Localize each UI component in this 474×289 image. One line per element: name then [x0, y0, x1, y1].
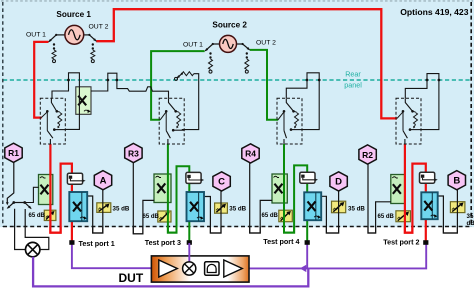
test port coupler CPLA (port 1) [69, 192, 87, 221]
jumper SW2 top rear panel loop [405, 74, 439, 130]
open contact circle [175, 77, 178, 80]
wire source1 OUT1 to switch box SW1 [34, 42, 48, 118]
svg-text:Source 2: Source 2 [212, 21, 247, 30]
reference stem R1 [7, 162, 14, 204]
measurement receiver C [213, 172, 230, 191]
reference coupler CPL3 (port 3) [154, 174, 171, 203]
test port coupler CPLB (port 2) [421, 192, 437, 219]
measurement receiver D [330, 172, 347, 191]
wire source2 to right pivot [236, 43, 242, 45]
reference path R2 [368, 164, 391, 234]
receiver attenuator 35 dB (port 1) [97, 203, 111, 213]
test port 4 connector [305, 240, 310, 245]
svg-text:Test port 3: Test port 3 [145, 238, 181, 247]
svg-text:OUT 1: OUT 1 [26, 32, 46, 39]
coupled arm port3 to 35dB and receiver C [204, 191, 221, 233]
front jumper receiver B [443, 227, 457, 234]
test port 1 connector [69, 240, 74, 245]
wire pulse modulator to SW3 top [91, 73, 169, 98]
reference coupler CPL2 (port 2) [391, 175, 406, 204]
jumper SW1 top to pulse modulator [52, 73, 79, 130]
wire source2 to left pivot [213, 43, 220, 45]
purple cable mixer IF output [33, 257, 308, 287]
rear panel connector junction dots [67, 79, 440, 82]
source1 switch lever OUT2 [88, 34, 97, 42]
R1 switch lever right [24, 201, 32, 209]
receiver attenuator 35 dB (port 2) [450, 202, 465, 213]
wire source1 OUT2 over top to switch box SW2 [96, 9, 397, 118]
wire SW1 through 65dB to front jumper and test port 1 [50, 144, 72, 241]
source2 termination left [209, 52, 213, 73]
DUT filter [205, 262, 219, 276]
svg-text:OUT 2: OUT 2 [256, 40, 276, 47]
purple cable test port3 to DUT mixer [188, 243, 190, 264]
front jumper source out port3 [168, 227, 177, 233]
reference path R3 [133, 162, 154, 234]
measurement receiver A [94, 171, 111, 190]
junction chevron on DUT output bus [300, 265, 307, 272]
source1 termination left [52, 43, 56, 62]
svg-text:B: B [453, 176, 460, 187]
svg-text:DUT: DUT [119, 271, 144, 285]
svg-text:R3: R3 [128, 148, 139, 158]
purple cable DUT output bus [250, 243, 427, 269]
step attenuator 65 dB (port 3) [158, 211, 171, 222]
front jumper receiver C [210, 227, 221, 234]
instrument interior background [0, 0, 474, 227]
wire source2 OUT1 to switch box SW3 [151, 51, 205, 120]
svg-text:35 dB: 35 dB [113, 206, 130, 213]
pulse modulator M1 (source 1 loop) [76, 87, 91, 115]
front jumper receiver A [93, 227, 103, 234]
source1 switch lever OUT1 [48, 34, 57, 43]
source2 termination right [245, 52, 249, 73]
front jumper receiver D [326, 227, 338, 234]
step attenuator 65 dB (port 2) [396, 211, 411, 222]
svg-text:R4: R4 [245, 149, 256, 159]
wire switch to external mixer RF [25, 209, 49, 250]
R1 lever arrowhead [6, 202, 9, 205]
reference receiver tap c (port 3) [186, 172, 204, 183]
source2 switch lever OUT2 [242, 43, 251, 51]
front jumper R3 [133, 227, 143, 234]
wire source1 to left pivot [56, 34, 65, 36]
R1 switch contact dots [12, 201, 15, 204]
svg-text:OUT 1: OUT 1 [183, 41, 203, 48]
reference coupler CPL1 (port 1) [39, 175, 53, 205]
wire source1 to right pivot [84, 34, 90, 36]
wire source2 OUT2 to switch box SW4 [250, 50, 278, 120]
jumper SW3 right to rear panel loop [182, 74, 199, 130]
wire R1 switch to reference coupler CPL1 [25, 187, 39, 202]
test port coupler CPLD (port 4) [304, 192, 321, 220]
resistor in SW3 rear loop [182, 72, 194, 76]
transfer switch SW3 [159, 98, 184, 144]
svg-text:OUT 2: OUT 2 [89, 24, 109, 31]
rear panel boundary line [3, 79, 471, 81]
svg-text:Test port 4: Test port 4 [263, 237, 299, 246]
svg-text:C: C [218, 177, 225, 188]
transfer switch SW4 [277, 98, 302, 144]
coupled arm port1 to 35dB and receiver A [87, 190, 103, 234]
test port coupler CPLC (port 3) [187, 192, 205, 221]
front jumper source out port1 [50, 227, 60, 233]
open contact at SW3 rear loop [176, 73, 183, 79]
svg-text:Test port 1: Test port 1 [79, 239, 115, 248]
DUT amplifier 1 [159, 260, 178, 277]
reference receiver R4 [242, 144, 259, 163]
svg-text:Source 1: Source 1 [56, 10, 91, 19]
source 1 oscillator [65, 25, 84, 44]
source 2 oscillator [220, 35, 237, 52]
external reference mixer [26, 242, 40, 256]
front panel boundary line [3, 226, 471, 228]
svg-text:R1: R1 [8, 148, 19, 158]
step attenuator 65 dB (port 4) [279, 210, 293, 222]
svg-text:Rear: Rear [345, 70, 361, 79]
outer dashed border top edge [1, 0, 473, 2]
svg-text:65 dB: 65 dB [378, 214, 395, 220]
svg-text:35 dB: 35 dB [348, 205, 365, 212]
measurement receiver B [448, 171, 465, 190]
wire SW2 through 65dB to front jumper and test port 2 [405, 144, 426, 241]
wire SW3 through 65dB to front jumper and test port 3 [168, 144, 189, 241]
svg-text:65 dB: 65 dB [262, 213, 279, 219]
DUT mixer [183, 262, 196, 275]
svg-text:dB: dB [467, 220, 474, 227]
front jumper R4 [250, 227, 261, 234]
test port 3 connector [187, 240, 192, 245]
receiver attenuator 35 dB (port 3) [215, 203, 228, 213]
svg-text:R2: R2 [362, 150, 373, 160]
step attenuator 65 dB (port 1) [44, 210, 56, 220]
source2 switch lever OUT1 [205, 43, 214, 52]
DUT box [151, 256, 249, 282]
DUT amplifier 2 [224, 260, 243, 277]
svg-text:65 dB: 65 dB [29, 213, 46, 219]
reference receiver R1 [5, 143, 22, 162]
test port 2 connector [423, 240, 428, 245]
reference receiver tap b (port 2) [420, 172, 438, 183]
purple cable test port4 branch [306, 243, 308, 268]
wire SW4 through 65dB to front jumper and test port 4 [284, 144, 307, 241]
outer dashed border right edge [470, 2, 472, 227]
transfer switch SW2 [396, 98, 421, 144]
svg-text:35 dB: 35 dB [229, 206, 246, 213]
svg-text:65 dB: 65 dB [143, 214, 160, 220]
receiver attenuator 35 dB (port 4) [332, 201, 346, 213]
outer dashed border left edge [2, 2, 4, 227]
reference coupler CPL4 (port 4) [272, 174, 287, 203]
purple cable test port1 to DUT input [72, 243, 151, 268]
front jumper R2 [368, 227, 376, 234]
reference receiver R2 [359, 145, 376, 164]
svg-text:Test port 2: Test port 2 [383, 238, 419, 247]
front jumper source out port4 [284, 227, 294, 233]
reference receiver tap a (port 1) [67, 173, 85, 184]
source1 termination right [91, 43, 95, 62]
reference path R4 [250, 162, 273, 233]
R1 switch lever left [7, 201, 15, 209]
coupled arm port2 to 35dB and receiver B [438, 190, 458, 234]
R1 switch common bar [14, 202, 25, 204]
wire switch to external mixer LO [15, 209, 26, 250]
svg-text:A: A [100, 176, 107, 187]
transfer switch SW1 [40, 98, 65, 144]
jumper SW4 top rear panel loop [286, 73, 319, 130]
reference receiver tap d (port 4) [300, 172, 318, 183]
reference receiver R3 [125, 143, 142, 162]
svg-text:panel: panel [344, 81, 362, 90]
svg-text:D: D [335, 177, 342, 188]
coupled arm port4 to 35dB and receiver D [321, 191, 339, 233]
svg-text:Options 419, 423: Options 419, 423 [400, 7, 469, 17]
svg-text:35: 35 [467, 213, 474, 220]
front jumper source out port2 [405, 227, 413, 233]
